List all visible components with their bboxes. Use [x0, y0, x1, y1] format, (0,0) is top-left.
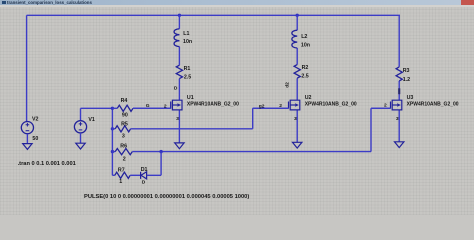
op-amp U1	[133, 100, 182, 110]
svg-text:U2: U2	[305, 95, 312, 101]
wire R6 to g3 riser	[132, 108, 390, 151]
svg-text:L2: L2	[301, 34, 307, 40]
voltage source V2	[21, 122, 33, 134]
ground under V2	[23, 144, 32, 150]
svg-text:D1: D1	[141, 167, 148, 173]
svg-text:R1: R1	[184, 66, 191, 72]
svg-text:90: 90	[122, 113, 128, 119]
svg-text:2: 2	[384, 103, 387, 109]
svg-text:50: 50	[32, 136, 38, 142]
svg-text:D: D	[142, 180, 146, 186]
ground under U2	[293, 142, 302, 148]
resistor R2	[294, 65, 300, 79]
resistor R4	[112, 107, 117, 109]
svg-text:XPW4R10ANB_G2_00: XPW4R10ANB_G2_00	[407, 101, 459, 107]
resistor R5	[112, 128, 115, 130]
svg-text:3: 3	[122, 134, 125, 140]
resistor R6	[112, 151, 115, 153]
wire R7 to D1	[130, 174, 140, 176]
wire top rail	[27, 14, 400, 16]
transistor U3	[371, 100, 402, 110]
svg-text:U3: U3	[407, 95, 414, 101]
svg-text:d2: d2	[285, 82, 291, 88]
ground under U1	[175, 143, 184, 149]
svg-text:R7: R7	[118, 168, 125, 174]
voltage source V1	[80, 108, 82, 120]
svg-text:U1: U1	[187, 95, 194, 101]
wire branch 1 vertical	[178, 15, 180, 143]
node top junction branch 1	[178, 14, 181, 17]
svg-text:XPW4R10ANB_G2_00: XPW4R10ANB_G2_00	[305, 101, 357, 107]
ground under U3	[395, 142, 404, 148]
svg-text:PULSE(0 10 0 0.00000001 0.0000: PULSE(0 10 0 0.00000001 0.00000001 0.000…	[84, 194, 249, 200]
wire branch 3 vertical	[398, 15, 400, 142]
wire left column vertical	[111, 108, 113, 175]
wire V1 to ground	[80, 133, 82, 143]
node junction D1 riser	[159, 150, 162, 153]
svg-text:1.2: 1.2	[403, 77, 410, 83]
resistor R1	[176, 65, 182, 78]
svg-text:g2: g2	[259, 103, 265, 109]
resistor R3	[396, 67, 402, 81]
resistor R7	[112, 174, 114, 176]
svg-text:D: D	[174, 86, 178, 92]
wire left rail	[26, 15, 28, 121]
svg-text:XPW4R10ANB_G2_00: XPW4R10ANB_G2_00	[187, 101, 239, 107]
wire branch 2 vertical	[296, 15, 298, 142]
node junction R4 row	[111, 107, 114, 110]
svg-text:R6: R6	[120, 144, 127, 150]
transistor U2	[253, 100, 300, 110]
node junction R6 row	[111, 150, 114, 153]
svg-text:2: 2	[279, 103, 282, 109]
svg-text:L1: L1	[183, 31, 189, 37]
svg-text:G: G	[146, 103, 150, 109]
node top junction branch 2	[296, 14, 299, 17]
svg-text:R3: R3	[403, 68, 410, 74]
wire V2 to ground	[26, 134, 28, 144]
svg-text:2: 2	[123, 156, 126, 162]
svg-text:R5: R5	[121, 122, 128, 128]
svg-text:2: 2	[164, 103, 167, 109]
svg-text:10n: 10n	[301, 42, 310, 48]
diode D1	[141, 172, 147, 179]
svg-text:2.5: 2.5	[184, 74, 191, 80]
svg-text:10n: 10n	[183, 39, 192, 45]
wire V1 to column	[81, 107, 113, 109]
node d3 label on wire	[398, 88, 400, 94]
svg-text:.tran 0 0.1 0.001 0.001: .tran 0 0.1 0.001 0.001	[18, 161, 76, 167]
svg-text:R2: R2	[302, 65, 309, 71]
node junction R5 row	[111, 127, 114, 130]
svg-text:R4: R4	[121, 98, 128, 104]
wire R5 to g2 riser	[131, 108, 289, 129]
wire D1 to riser	[147, 152, 162, 176]
svg-text:V1: V1	[88, 117, 95, 123]
wire R4 to U1 gate	[133, 107, 171, 109]
ground under V1	[76, 143, 85, 149]
inductor L1	[174, 29, 179, 47]
inductor L2	[292, 30, 297, 48]
svg-text:V2: V2	[32, 116, 39, 122]
svg-text:3: 3	[294, 116, 297, 122]
svg-text:3: 3	[396, 116, 399, 122]
svg-text:2.5: 2.5	[301, 73, 308, 79]
svg-text:3: 3	[176, 116, 179, 122]
svg-text:1: 1	[119, 179, 122, 185]
